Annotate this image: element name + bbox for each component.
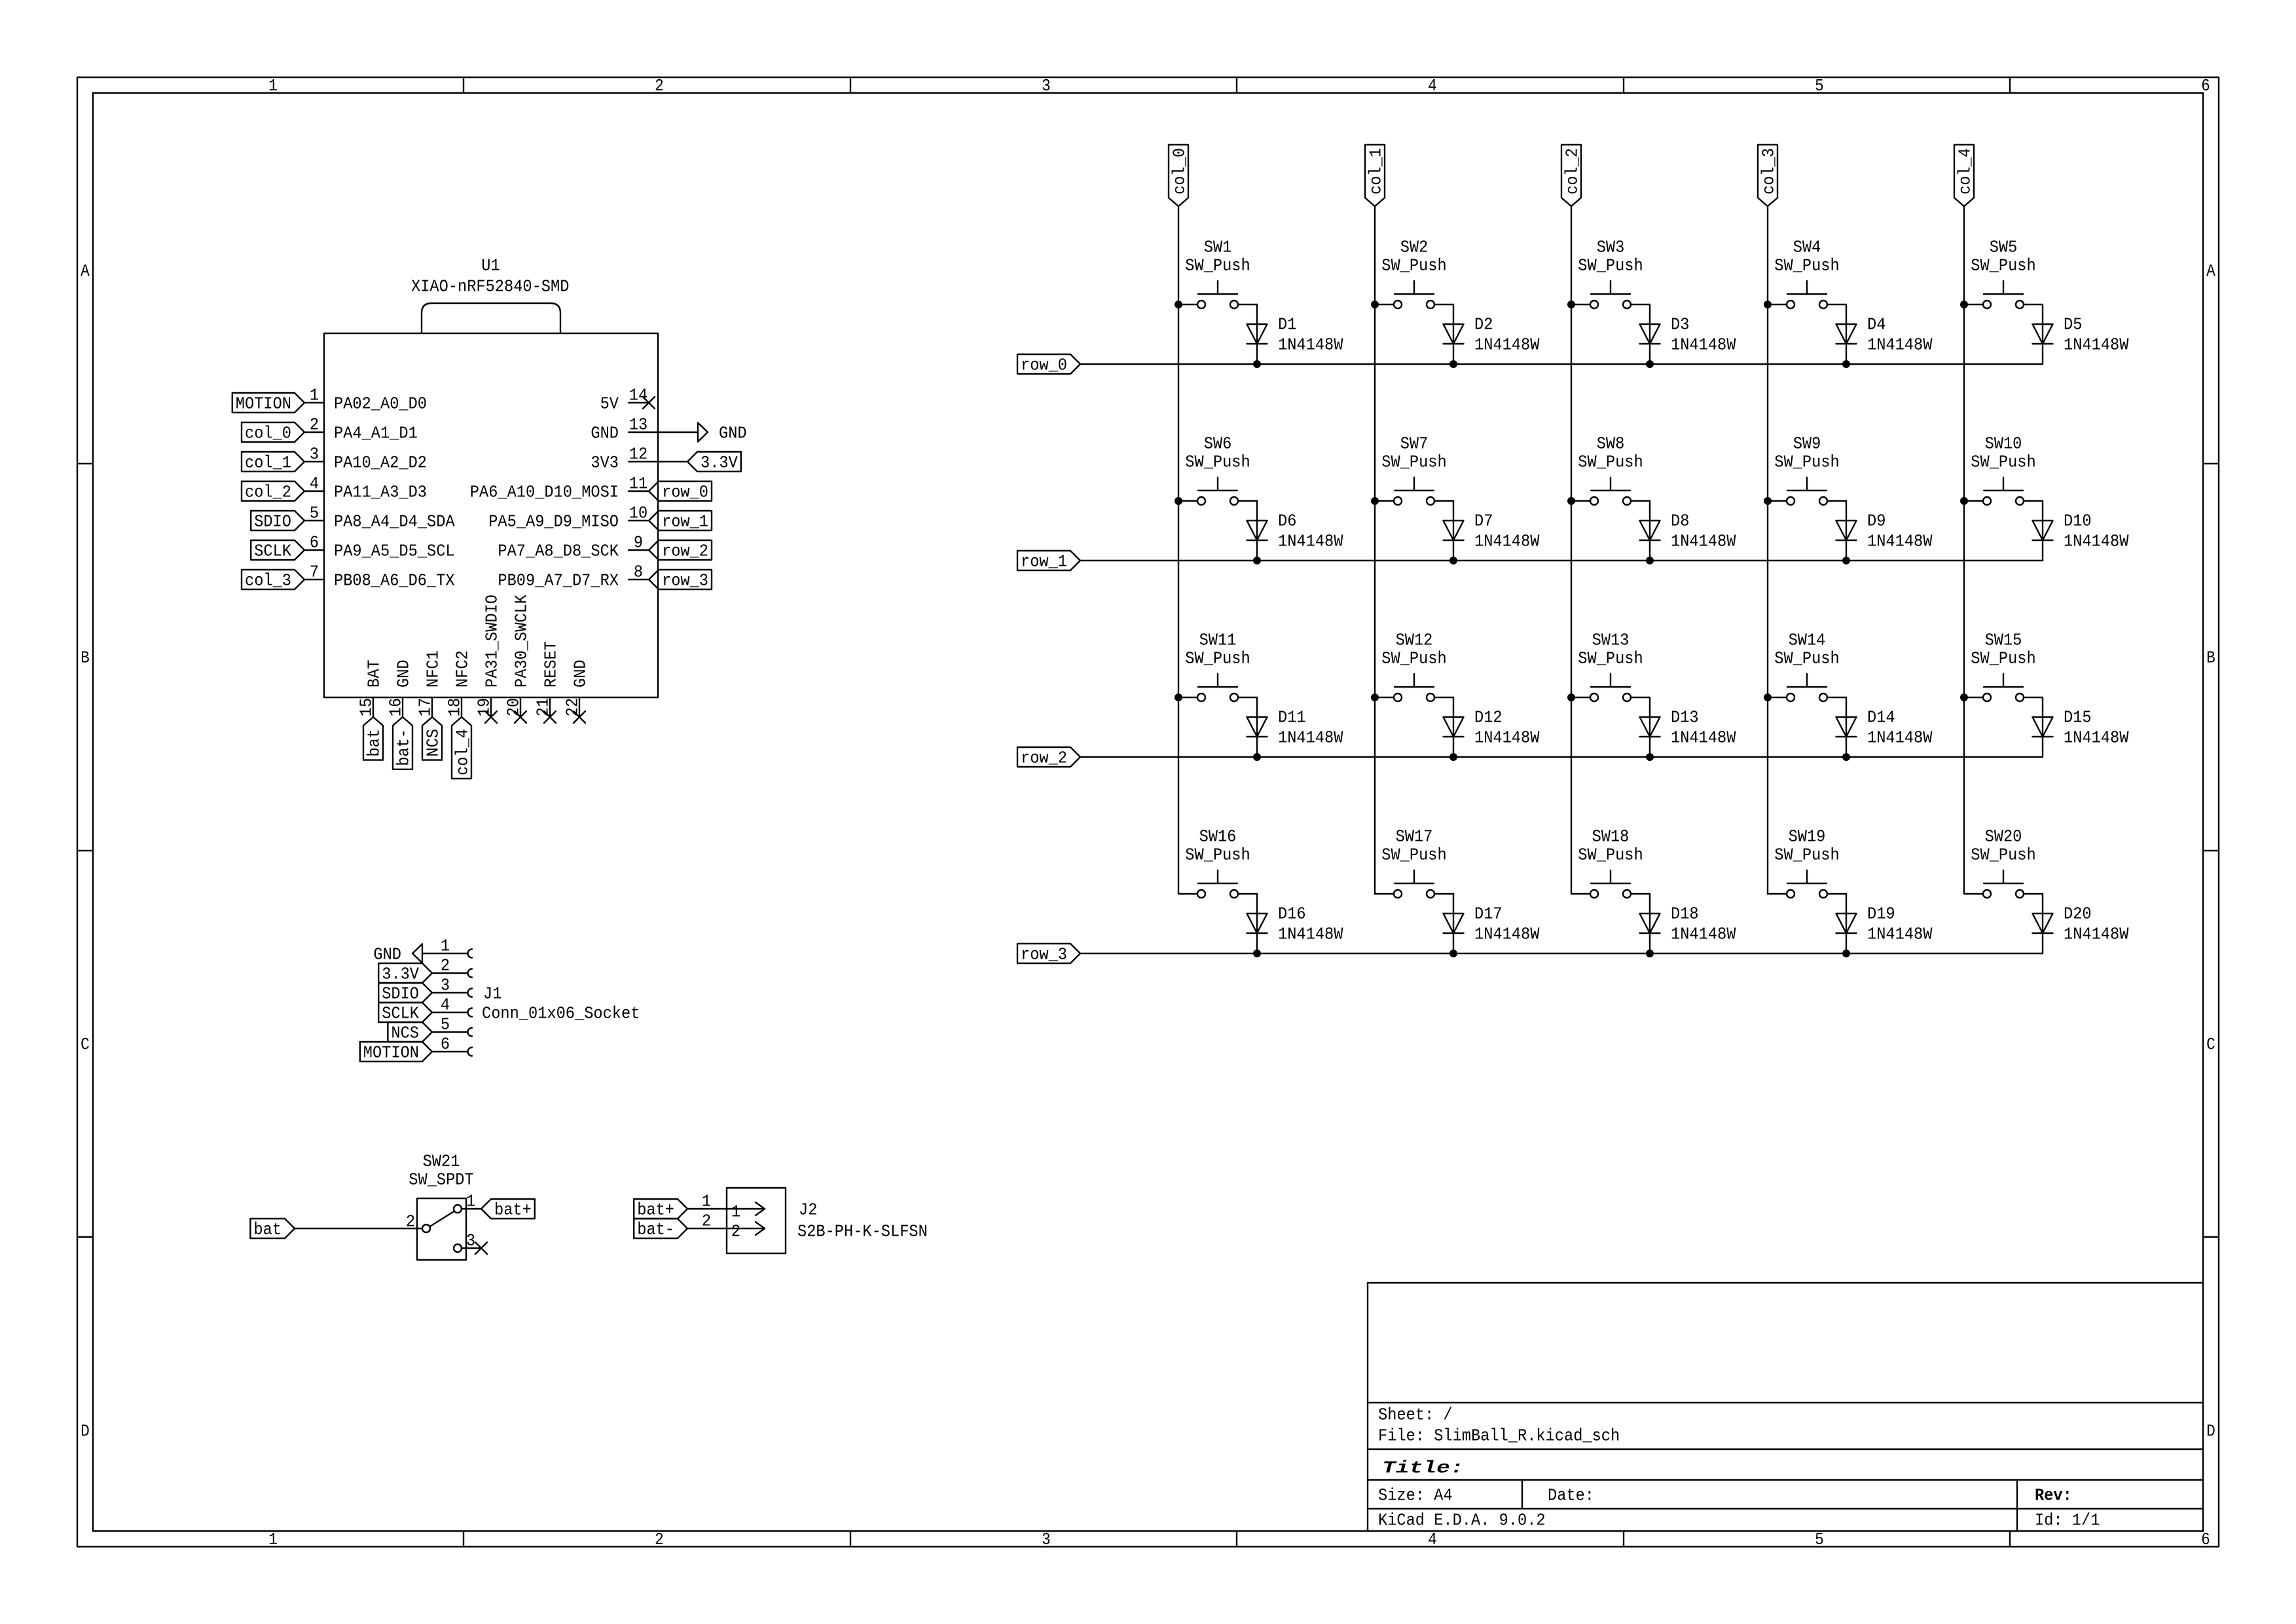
svg-text:PA7_A8_D8_SCK: PA7_A8_D8_SCK	[498, 542, 619, 561]
svg-text:SW20: SW20	[1985, 827, 2022, 847]
svg-text:SW6: SW6	[1204, 434, 1232, 454]
svg-text:GND: GND	[719, 424, 747, 443]
svg-text:SW_Push: SW_Push	[1774, 649, 1839, 669]
wire	[687, 1208, 727, 1209]
svg-text:row_3: row_3	[1021, 945, 1067, 965]
wire row_3	[1080, 953, 2043, 954]
net label col_4	[1954, 145, 1975, 206]
U1 pin 12 3V3	[591, 445, 648, 473]
svg-text:RESET: RESET	[541, 641, 561, 688]
switch SW15 SW_Push	[1964, 631, 2043, 701]
svg-text:bat: bat	[253, 1220, 282, 1240]
svg-text:SW7: SW7	[1400, 434, 1429, 454]
svg-text:SW16: SW16	[1199, 827, 1237, 847]
wire col_0	[1178, 206, 1179, 894]
svg-text:D18: D18	[1671, 904, 1699, 924]
svg-text:1N4148W: 1N4148W	[1867, 335, 1933, 355]
junction	[1960, 693, 1968, 701]
net label col_2	[1561, 145, 1582, 206]
wire SW4 to row	[1846, 304, 1847, 364]
svg-text:1: 1	[731, 1202, 740, 1222]
switch SW21 SW_SPDT	[406, 1152, 481, 1260]
svg-text:SW13: SW13	[1592, 631, 1630, 650]
switch SW4 SW_Push	[1768, 238, 1846, 308]
svg-text:1N4148W: 1N4148W	[1867, 728, 1933, 748]
svg-text:1N4148W: 1N4148W	[2064, 728, 2129, 748]
svg-text:col_3: col_3	[1759, 148, 1779, 194]
svg-text:D13: D13	[1671, 708, 1699, 728]
wire SW7 to row	[1453, 501, 1454, 561]
svg-text:PA5_A9_D9_MISO: PA5_A9_D9_MISO	[488, 512, 619, 532]
svg-text:GND: GND	[571, 659, 591, 688]
net label col_3	[1758, 145, 1779, 206]
switch SW3 SW_Push	[1571, 238, 1650, 308]
svg-text:SW3: SW3	[1597, 238, 1625, 257]
svg-text:D1: D1	[1278, 315, 1296, 335]
U1 pin 10 PA5_A9_D9_MISO	[488, 504, 648, 532]
wire col_3	[1767, 206, 1768, 894]
svg-text:D: D	[81, 1422, 90, 1441]
svg-text:row_1: row_1	[662, 512, 708, 532]
junction	[1646, 753, 1654, 761]
svg-text:5: 5	[1815, 1530, 1824, 1549]
svg-text:D20: D20	[2064, 904, 2092, 924]
svg-text:16: 16	[386, 698, 406, 716]
svg-text:3: 3	[310, 445, 319, 464]
svg-text:SW_Push: SW_Push	[1578, 649, 1643, 669]
no-connect	[643, 397, 655, 409]
power label 3.3V	[378, 963, 432, 984]
switch SW7 SW_Push	[1375, 434, 1453, 505]
net label col_3	[242, 570, 304, 591]
svg-text:SW5: SW5	[1990, 238, 2018, 257]
diode D11 1N4148W	[1247, 708, 1343, 748]
svg-text:1N4148W: 1N4148W	[1278, 728, 1343, 748]
net label col_0	[242, 422, 304, 443]
wire col_1	[1374, 206, 1376, 894]
J1 pin 6	[432, 1035, 472, 1056]
svg-text:SW17: SW17	[1396, 827, 1433, 847]
diode D13 1N4148W	[1640, 708, 1736, 748]
svg-text:D10: D10	[2064, 511, 2092, 531]
U1 pin 17 NFC1	[416, 650, 443, 717]
diode D20 1N4148W	[2033, 904, 2129, 944]
junction	[1175, 301, 1182, 308]
svg-text:PA31_SWDIO: PA31_SWDIO	[483, 595, 502, 688]
junction	[1764, 497, 1772, 505]
svg-text:6: 6	[2201, 1530, 2210, 1549]
switch SW17 SW_Push	[1375, 827, 1453, 898]
switch SW16 SW_Push	[1178, 827, 1257, 898]
svg-text:3: 3	[1042, 76, 1051, 96]
wire SW2 to row	[1453, 304, 1454, 364]
svg-text:bat+: bat+	[494, 1200, 532, 1220]
svg-text:PA10_A2_D2: PA10_A2_D2	[334, 453, 427, 473]
net label SDIO	[251, 511, 304, 532]
svg-text:File: SlimBall_R.kicad_sch: File: SlimBall_R.kicad_sch	[1378, 1426, 1620, 1446]
svg-text:SDIO: SDIO	[382, 984, 419, 1004]
svg-text:bat+: bat+	[637, 1200, 674, 1220]
svg-text:1: 1	[310, 386, 319, 405]
diode D19 1N4148W	[1836, 904, 1933, 944]
switch SW18 SW_Push	[1571, 827, 1650, 898]
wire SW5 to row	[2042, 304, 2043, 364]
wire SW12 to row	[1453, 697, 1454, 757]
svg-text:SW_Push: SW_Push	[1971, 256, 2035, 276]
switch SW8 SW_Push	[1571, 434, 1650, 505]
svg-text:D16: D16	[1278, 904, 1306, 924]
svg-text:row_2: row_2	[662, 542, 708, 561]
junction	[1253, 950, 1261, 957]
svg-text:SW_Push: SW_Push	[1185, 256, 1250, 276]
svg-text:1N4148W: 1N4148W	[2064, 532, 2129, 551]
svg-text:1N4148W: 1N4148W	[1867, 532, 1933, 551]
junction	[1253, 360, 1261, 368]
wire	[295, 1228, 422, 1229]
svg-text:D9: D9	[1867, 511, 1886, 531]
svg-text:4: 4	[441, 995, 450, 1015]
diode D4 1N4148W	[1836, 315, 1933, 355]
net label SDIO	[378, 983, 432, 1004]
svg-text:Title:: Title:	[1382, 1458, 1464, 1478]
no-connect	[544, 711, 556, 723]
switch SW9 SW_Push	[1768, 434, 1846, 505]
J2 pin 2	[702, 1211, 711, 1231]
wire col_2	[1571, 206, 1572, 894]
svg-text:PA8_A4_D4_SDA: PA8_A4_D4_SDA	[334, 512, 455, 532]
junction	[1764, 301, 1772, 308]
svg-text:SW_Push: SW_Push	[1381, 845, 1446, 865]
svg-text:SW_Push: SW_Push	[1185, 845, 1250, 865]
svg-text:col_1: col_1	[1366, 148, 1386, 194]
wire SW17 to row	[1453, 894, 1454, 953]
svg-text:row_2: row_2	[1021, 748, 1067, 768]
diode D7 1N4148W	[1444, 511, 1540, 551]
svg-text:col_4: col_4	[1956, 148, 1975, 194]
svg-text:5: 5	[1815, 76, 1824, 96]
svg-text:1: 1	[466, 1192, 475, 1211]
svg-text:SW_Push: SW_Push	[1185, 452, 1250, 472]
wire SW15 to row	[2042, 697, 2043, 757]
U1 pin 9 PA7_A8_D8_SCK	[498, 533, 648, 561]
svg-text:2: 2	[441, 956, 450, 976]
junction	[1253, 753, 1261, 761]
svg-text:SW_Push: SW_Push	[1971, 649, 2035, 669]
svg-text:NCS: NCS	[424, 729, 443, 757]
svg-text:1N4148W: 1N4148W	[1671, 728, 1736, 748]
svg-text:bat: bat	[365, 729, 384, 757]
junction	[1842, 753, 1850, 761]
svg-text:J1: J1	[483, 984, 501, 1004]
switch SW13 SW_Push	[1571, 631, 1650, 701]
svg-text:PA11_A3_D3: PA11_A3_D3	[334, 483, 427, 502]
U1 pin 1 PA02_A0_D0	[304, 386, 427, 414]
svg-text:1N4148W: 1N4148W	[1278, 925, 1343, 944]
diode D9 1N4148W	[1836, 511, 1933, 551]
wire SW19 to row	[1846, 894, 1847, 953]
svg-text:SW_Push: SW_Push	[1578, 452, 1643, 472]
power GND	[373, 944, 422, 965]
svg-text:PA4_A1_D1: PA4_A1_D1	[334, 424, 418, 443]
svg-text:1N4148W: 1N4148W	[1278, 335, 1343, 355]
svg-text:col_3: col_3	[245, 571, 291, 591]
svg-text:D14: D14	[1867, 708, 1895, 728]
svg-text:1N4148W: 1N4148W	[1867, 925, 1933, 944]
diode D3 1N4148W	[1640, 315, 1736, 355]
junction	[1646, 950, 1654, 957]
diode D1 1N4148W	[1247, 315, 1343, 355]
svg-text:21: 21	[534, 698, 553, 716]
svg-text:D3: D3	[1671, 315, 1689, 335]
junction	[1567, 693, 1575, 701]
U1 pin 7 PB08_A6_D6_TX	[304, 563, 455, 591]
svg-text:col_1: col_1	[245, 453, 291, 473]
wire SW1 to row	[1256, 304, 1258, 364]
svg-text:bat-: bat-	[637, 1220, 674, 1240]
svg-text:3.3V: 3.3V	[382, 965, 419, 984]
U1 pin 13 GND	[591, 415, 648, 443]
svg-text:SW21: SW21	[423, 1152, 460, 1172]
svg-text:SW_Push: SW_Push	[1185, 649, 1250, 669]
net label col_0	[1169, 145, 1190, 206]
svg-text:5V: 5V	[600, 394, 619, 414]
svg-text:SW_Push: SW_Push	[1971, 452, 2035, 472]
svg-text:col_0: col_0	[245, 424, 291, 443]
net label bat	[363, 717, 384, 760]
diode D5 1N4148W	[2033, 315, 2129, 355]
svg-text:12: 12	[629, 445, 647, 464]
svg-text:1N4148W: 1N4148W	[2064, 925, 2129, 944]
net label SCLK	[251, 540, 304, 561]
junction	[1253, 557, 1261, 564]
svg-text:col_4: col_4	[453, 729, 473, 775]
svg-text:SW_Push: SW_Push	[1774, 256, 1839, 276]
svg-text:col_2: col_2	[245, 483, 291, 502]
svg-text:Rev:: Rev:	[2035, 1486, 2072, 1505]
svg-text:19: 19	[475, 698, 494, 716]
svg-text:NCS: NCS	[391, 1024, 419, 1043]
net label row_2	[1017, 747, 1080, 768]
svg-text:XIAO-nRF52840-SMD: XIAO-nRF52840-SMD	[411, 277, 569, 297]
svg-text:NFC2: NFC2	[453, 650, 473, 688]
svg-text:3: 3	[1042, 1530, 1051, 1549]
svg-text:3: 3	[441, 976, 450, 995]
U1 pin 16 GND	[386, 659, 414, 717]
junction	[1764, 693, 1772, 701]
net label col_4	[452, 717, 473, 779]
diode D14 1N4148W	[1836, 708, 1933, 748]
svg-text:6: 6	[2201, 76, 2210, 96]
svg-text:D4: D4	[1867, 315, 1886, 335]
svg-text:C: C	[81, 1035, 90, 1054]
switch SW2 SW_Push	[1375, 238, 1453, 308]
svg-text:col_2: col_2	[1563, 148, 1582, 194]
wire SW13 to row	[1649, 697, 1650, 757]
svg-text:SW_Push: SW_Push	[1381, 649, 1446, 669]
U1 pin 5 PA8_A4_D4_SDA	[304, 504, 455, 532]
svg-text:S2B-PH-K-SLFSN: S2B-PH-K-SLFSN	[797, 1222, 928, 1242]
svg-text:1: 1	[268, 76, 278, 96]
svg-text:1N4148W: 1N4148W	[1278, 532, 1343, 551]
wire	[687, 1228, 727, 1229]
svg-text:PA6_A10_D10_MOSI: PA6_A10_D10_MOSI	[470, 483, 619, 502]
svg-text:D: D	[2206, 1422, 2215, 1441]
IC U1 XIAO-nRF52840-SMD body	[324, 256, 658, 697]
junction	[1449, 950, 1457, 957]
net label row_1	[1017, 551, 1080, 572]
svg-text:BAT: BAT	[365, 659, 384, 688]
no-connect	[485, 711, 497, 723]
svg-text:row_1: row_1	[1021, 552, 1067, 572]
net label row_0	[1017, 354, 1080, 375]
svg-text:20: 20	[504, 698, 524, 716]
svg-text:2: 2	[655, 76, 664, 96]
svg-text:3V3: 3V3	[591, 453, 619, 473]
svg-text:4: 4	[1428, 76, 1437, 96]
junction	[1567, 301, 1575, 308]
svg-text:5: 5	[310, 504, 319, 523]
svg-text:B: B	[81, 648, 90, 668]
U1 pin 2 PA4_A1_D1	[304, 415, 418, 443]
svg-text:Size: A4: Size: A4	[1378, 1486, 1453, 1505]
wire row_2	[1080, 756, 2043, 758]
wire SW10 to row	[2042, 501, 2043, 561]
svg-text:1N4148W: 1N4148W	[1474, 335, 1540, 355]
U1 pin 14 5V	[600, 386, 648, 414]
U1 pin 3 PA10_A2_D2	[304, 445, 427, 473]
svg-text:1: 1	[441, 936, 450, 956]
net label col_2	[242, 481, 304, 502]
svg-text:PB09_A7_D7_RX: PB09_A7_D7_RX	[498, 571, 619, 591]
wire	[648, 432, 698, 433]
net label bat+	[481, 1199, 535, 1220]
junction	[1175, 497, 1182, 505]
U1 pin 8 PB09_A7_D7_RX	[498, 563, 648, 591]
net label row_0	[649, 481, 712, 502]
svg-text:SW_Push: SW_Push	[1578, 845, 1643, 865]
switch SW1 SW_Push	[1178, 238, 1257, 308]
net label row_1	[649, 511, 712, 532]
svg-text:PB08_A6_D6_TX: PB08_A6_D6_TX	[334, 571, 455, 591]
junction	[1371, 497, 1379, 505]
diode D18 1N4148W	[1640, 904, 1736, 944]
svg-text:13: 13	[629, 415, 647, 435]
svg-text:1N4148W: 1N4148W	[1474, 532, 1540, 551]
U1 pin 4 PA11_A3_D3	[304, 474, 427, 502]
svg-text:17: 17	[416, 698, 435, 716]
junction	[1449, 360, 1457, 368]
net label bat+	[634, 1199, 687, 1220]
svg-text:14: 14	[629, 386, 647, 405]
svg-text:15: 15	[357, 698, 376, 716]
junction	[1175, 693, 1182, 701]
junction	[1960, 301, 1968, 308]
svg-text:SW15: SW15	[1985, 631, 2022, 650]
svg-text:J2: J2	[799, 1200, 817, 1220]
net label MOTION	[360, 1042, 432, 1063]
svg-text:SCLK: SCLK	[254, 542, 291, 561]
diode D17 1N4148W	[1444, 904, 1540, 944]
net label NCS	[388, 1022, 432, 1043]
svg-text:9: 9	[634, 533, 643, 553]
diode D6 1N4148W	[1247, 511, 1343, 551]
switch SW20 SW_Push	[1964, 827, 2043, 898]
junction	[1842, 360, 1850, 368]
diode D8 1N4148W	[1640, 511, 1736, 551]
U1 pin 15 BAT	[357, 659, 384, 717]
svg-text:1: 1	[268, 1530, 278, 1549]
J1 pin 4	[432, 995, 472, 1017]
svg-text:KiCad E.D.A. 9.0.2: KiCad E.D.A. 9.0.2	[1378, 1511, 1546, 1530]
net label row_3	[649, 570, 712, 591]
svg-text:SW2: SW2	[1400, 238, 1429, 257]
svg-text:2: 2	[731, 1222, 740, 1242]
svg-text:SW10: SW10	[1985, 434, 2022, 454]
svg-text:MOTION: MOTION	[236, 394, 291, 414]
svg-text:3: 3	[466, 1231, 475, 1251]
wire SW6 to row	[1256, 501, 1258, 561]
svg-text:Sheet: /: Sheet: /	[1378, 1405, 1453, 1425]
junction	[1371, 693, 1379, 701]
svg-text:D12: D12	[1474, 708, 1503, 728]
switch SW6 SW_Push	[1178, 434, 1257, 505]
svg-text:PA30_SWCLK: PA30_SWCLK	[512, 595, 532, 688]
svg-text:1N4148W: 1N4148W	[1671, 532, 1736, 551]
svg-text:SW11: SW11	[1199, 631, 1237, 650]
svg-text:10: 10	[629, 504, 647, 523]
svg-text:GND: GND	[373, 945, 401, 965]
switch SW10 SW_Push	[1964, 434, 2043, 505]
svg-text:Conn_01x06_Socket: Conn_01x06_Socket	[482, 1004, 640, 1024]
no-connect	[515, 711, 526, 723]
svg-text:2: 2	[310, 415, 319, 435]
svg-text:SW4: SW4	[1793, 238, 1821, 257]
svg-text:SW18: SW18	[1592, 827, 1630, 847]
svg-text:NFC1: NFC1	[424, 650, 443, 688]
svg-text:1N4148W: 1N4148W	[1671, 925, 1736, 944]
J1 pin 5	[432, 1015, 472, 1037]
net label row_2	[649, 540, 712, 561]
net label bat	[250, 1219, 295, 1240]
U1 pin 6 PA9_A5_D5_SCL	[304, 533, 455, 561]
svg-text:3.3V: 3.3V	[701, 453, 738, 473]
diode D2 1N4148W	[1444, 315, 1540, 355]
svg-text:SW19: SW19	[1789, 827, 1826, 847]
svg-text:D8: D8	[1671, 511, 1689, 531]
svg-text:row_0: row_0	[1021, 356, 1067, 375]
svg-text:SW_Push: SW_Push	[1774, 452, 1839, 472]
switch SW19 SW_Push	[1768, 827, 1846, 898]
svg-text:U1: U1	[481, 256, 500, 276]
net label MOTION	[232, 393, 304, 414]
svg-text:22: 22	[563, 698, 583, 716]
net label row_3	[1017, 944, 1080, 965]
svg-text:SW_Push: SW_Push	[1578, 256, 1643, 276]
J1 pin 3	[432, 976, 472, 997]
svg-text:SCLK: SCLK	[382, 1004, 419, 1024]
wire row_1	[1080, 560, 2043, 561]
svg-text:18: 18	[445, 698, 465, 716]
net label col_1	[242, 452, 304, 473]
svg-text:1N4148W: 1N4148W	[1474, 728, 1540, 748]
junction	[1449, 557, 1457, 564]
svg-text:SW9: SW9	[1793, 434, 1821, 454]
svg-text:row_3: row_3	[662, 571, 708, 591]
wire SW16 to row	[1256, 894, 1258, 953]
power GND	[698, 423, 747, 443]
net label SCLK	[378, 1003, 432, 1024]
net label bat-	[634, 1219, 687, 1240]
